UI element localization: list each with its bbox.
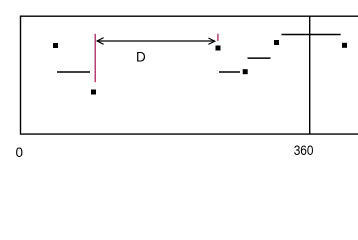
svg-text:0: 0 xyxy=(16,145,24,160)
svg-text:360: 360 xyxy=(294,142,314,158)
svg-text:D: D xyxy=(136,49,146,64)
